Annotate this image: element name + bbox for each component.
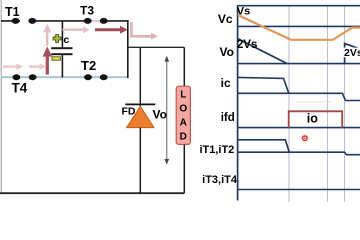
- ic capacitor current pulse: [238, 77, 289, 93]
- thyristor T4 dot 2: [29, 74, 37, 80]
- current arrow up through capacitor (dark red): [43, 46, 52, 74]
- panel top border: [238, 5, 360, 7]
- ifd zero line: [238, 127, 360, 129]
- thyristor T4 dot 1: [13, 74, 21, 80]
- svg-text:iT1,iT2: iT1,iT2: [199, 144, 234, 156]
- capacitor minus polarity symbol: [52, 57, 60, 60]
- diode FD cathode bar: [125, 103, 155, 105]
- ic zero line with end-of-cycle dip: [238, 93, 360, 100]
- svg-text:2Vs: 2Vs: [344, 47, 360, 59]
- svg-text:2Vs: 2Vs: [237, 39, 257, 51]
- grid line t3: [344, 6, 346, 202]
- Vc zero line: [238, 25, 360, 27]
- wire capacitor lower lead: [61, 55, 63, 77]
- svg-text:Vs: Vs: [237, 5, 250, 17]
- pink conduction segment in T3 gap: [92, 20, 101, 22]
- io text box faint top edge: [296, 101, 332, 103]
- Vo next cycle rise: [345, 44, 360, 64]
- svg-text:c: c: [63, 34, 69, 46]
- wire LOAD branch upper: [183, 47, 185, 86]
- Vc capacitor voltage waveform (orange): [238, 15, 360, 40]
- capacitor C bottom plate: [51, 53, 72, 55]
- svg-text:Vo: Vo: [220, 45, 234, 59]
- iT1,iT2 zero line with end step: [238, 152, 360, 155]
- wire top rail between T1 and T3: [29, 20, 92, 22]
- wire FD branch lower: [139, 128, 141, 194]
- svg-text:iT3,iT4: iT3,iT4: [202, 174, 238, 186]
- current arrow under top rail left (pink): [63, 26, 91, 33]
- svg-text:D: D: [180, 132, 187, 143]
- wire FD branch upper: [139, 47, 141, 106]
- svg-text:T1: T1: [5, 5, 20, 19]
- svg-text:Vo: Vo: [153, 108, 167, 122]
- grid line t2: [327, 6, 329, 202]
- Vo zero line: [238, 63, 360, 65]
- current arrow through T3 (dark red): [95, 26, 128, 34]
- thyristor T1 dot 2: [28, 18, 36, 24]
- wire LOAD branch lower: [183, 144, 185, 193]
- current arrow into T4 (pink): [3, 63, 23, 70]
- thyristor T2 dot 1: [84, 74, 92, 80]
- left slide edge line: [0, 0, 2, 193]
- thyristor T3 dot 2: [100, 18, 108, 24]
- white backing for 2Vs right: [344, 48, 360, 58]
- current arrow up to top rail (pink): [43, 24, 51, 46]
- capacitor plus polarity symbol: [53, 35, 61, 43]
- capacitor C top plate: [51, 47, 72, 49]
- svg-text:FD: FD: [122, 106, 136, 118]
- iT1,iT2 current pulse: [238, 140, 290, 152]
- laser pointer dot: [300, 134, 309, 143]
- ifd freewheel diode current pulse (maroon): [289, 111, 343, 127]
- thyristor T2 dot 2: [100, 74, 108, 80]
- svg-text:L: L: [180, 90, 186, 101]
- wire bottom rail: [0, 192, 184, 194]
- svg-text:T2: T2: [81, 58, 96, 73]
- diode FD triangle: [127, 106, 154, 127]
- grid line t1: [288, 6, 290, 202]
- current elbow arrow down-right (pink): [130, 22, 158, 40]
- svg-text:A: A: [180, 118, 187, 129]
- svg-text:ic: ic: [221, 76, 231, 90]
- LOAD box: [176, 86, 190, 144]
- wire right branch vertical: [127, 20, 129, 78]
- thyristor T1 dot 1: [12, 18, 20, 24]
- svg-text:ifd: ifd: [221, 112, 235, 124]
- Vo measurement arrow: [165, 56, 170, 165]
- thyristor T3 dot 1: [84, 18, 92, 24]
- wire output top horizontal: [128, 46, 185, 48]
- svg-text:io: io: [307, 112, 318, 126]
- wire blue bottom rail of bridge: [1, 76, 129, 78]
- current arrow toward capacitor leg (pink): [29, 63, 46, 70]
- Vo output voltage waveform: [238, 39, 287, 64]
- waveform axis vertical: [237, 5, 239, 200]
- iT3,iT4 zero line: [238, 189, 360, 191]
- wire top rail right of T3: [100, 20, 129, 22]
- wire top rail left of T1: [1, 20, 20, 22]
- wire capacitor upper lead: [61, 21, 63, 48]
- svg-text:Vc: Vc: [218, 12, 233, 26]
- svg-text:O: O: [179, 104, 187, 115]
- svg-text:T3: T3: [80, 4, 94, 18]
- svg-text:T4: T4: [12, 81, 28, 96]
